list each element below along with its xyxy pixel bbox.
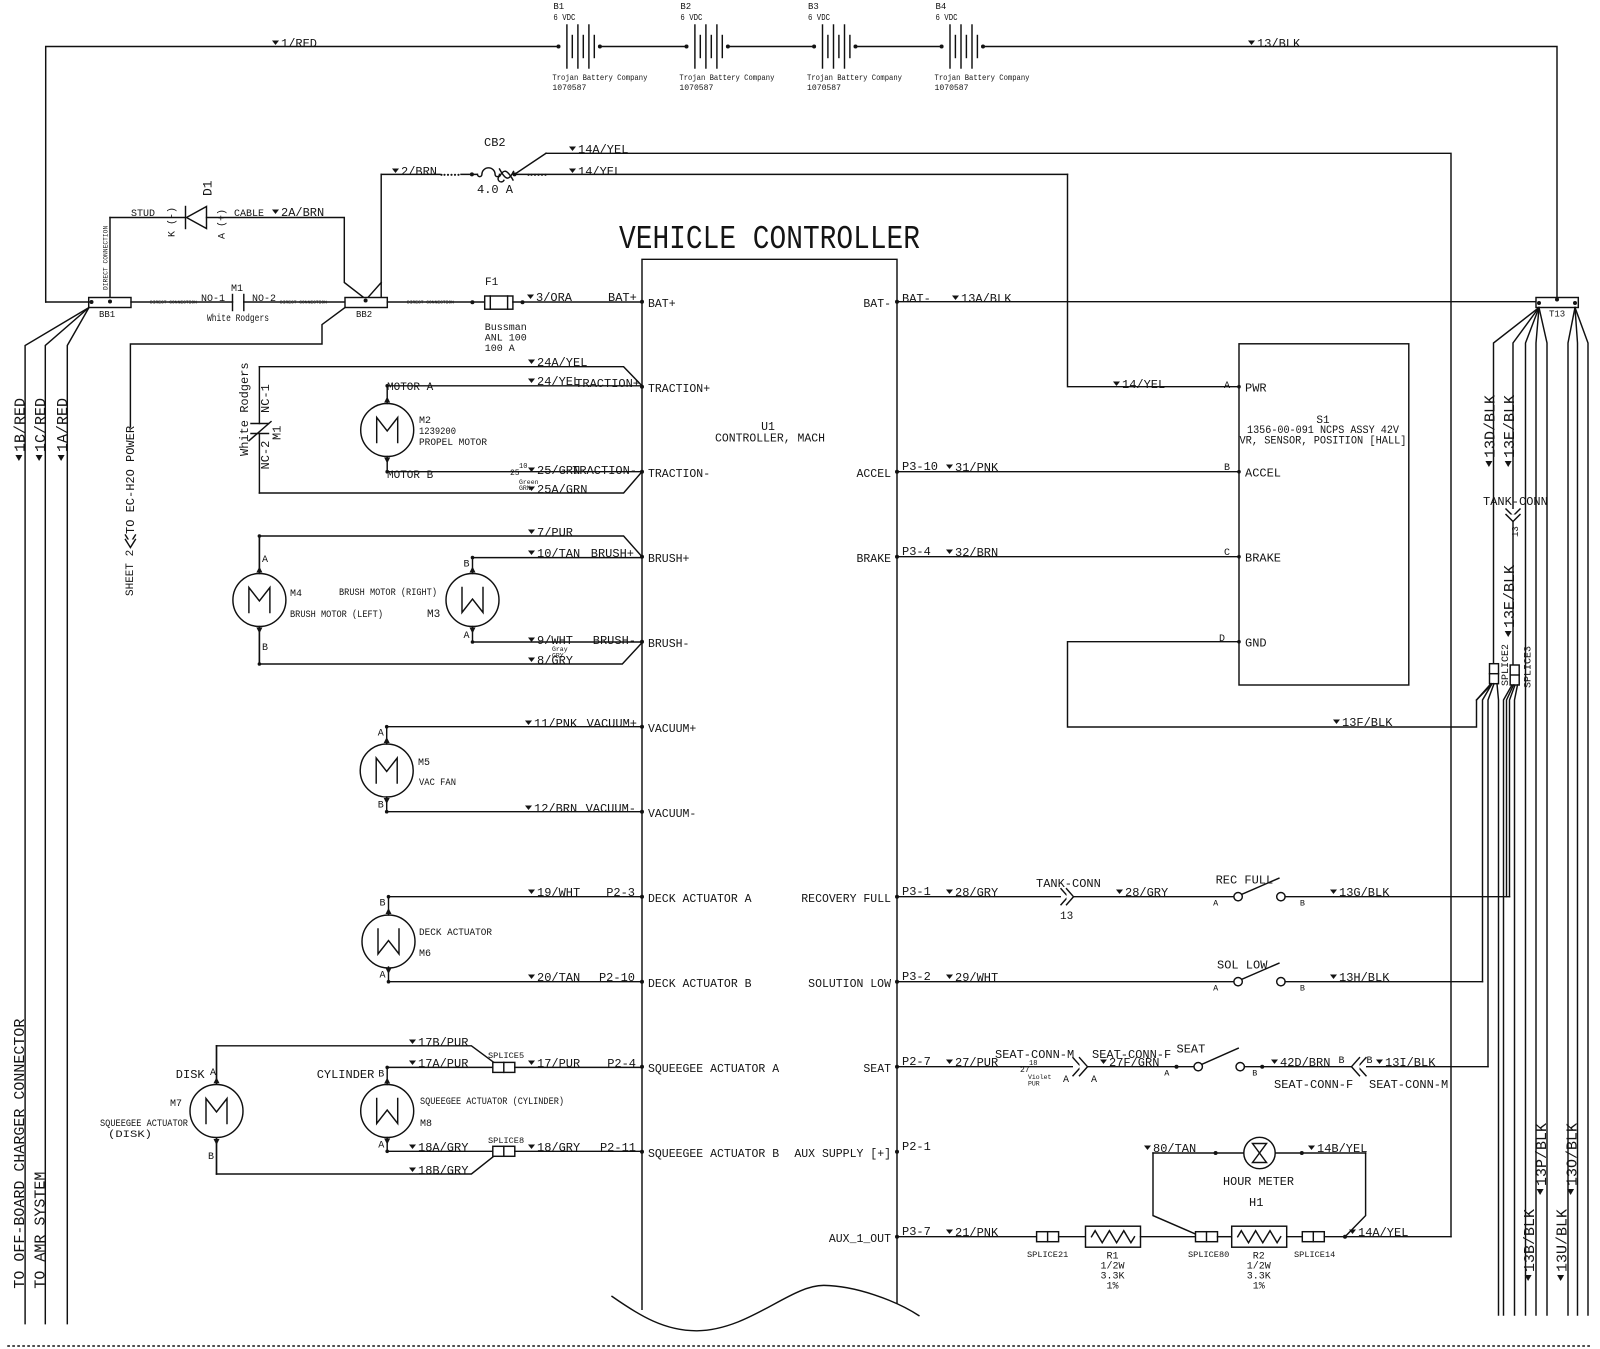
svg-text:32/BRN: 32/BRN [955, 546, 998, 560]
label 17B/PUR [409, 1040, 416, 1045]
label 80/TAN [1144, 1146, 1151, 1151]
pin DECK ACTUATOR A (U1 left) [640, 895, 644, 899]
wire 14A/YEL [546, 153, 1451, 1236]
svg-text:B: B [380, 899, 386, 910]
svg-text:VACUUM-: VACUUM- [586, 802, 636, 816]
svg-text:24A/YEL: 24A/YEL [537, 356, 587, 370]
svg-text:GRN: GRN [519, 485, 531, 492]
wire 2/BRN diag [367, 283, 382, 300]
hour meter H1 [1244, 1137, 1275, 1168]
svg-text:BAT+: BAT+ [608, 291, 637, 305]
battery B2 [694, 25, 696, 68]
motor M3 (brush right) [446, 574, 499, 627]
pin BAT- (U1 right) [895, 300, 899, 304]
terminal block BB1 [89, 298, 131, 308]
svg-text:7/PUR: 7/PUR [537, 526, 573, 540]
pin BRAKE (S1) [1237, 555, 1241, 559]
squeegee left vertical bottom [216, 1138, 218, 1174]
junction before F1 [470, 300, 474, 304]
svg-text:B: B [1224, 463, 1230, 474]
svg-text:TO AMR SYSTEM: TO AMR SYSTEM [32, 1172, 49, 1289]
svg-text:White Rodgers: White Rodgers [238, 362, 252, 456]
motor M4 (brush left) [233, 574, 286, 627]
pin ACCEL (S1) [1237, 470, 1241, 474]
svg-text:28/GRY: 28/GRY [1125, 886, 1168, 900]
svg-text:PWR: PWR [1245, 382, 1267, 396]
svg-text:DECK ACTUATOR: DECK ACTUATOR [419, 928, 492, 939]
svg-text:SHEET 2: SHEET 2 [125, 550, 137, 596]
wire 14/YEL to S1 PWR [1068, 174, 1240, 386]
svg-text:31/PNK: 31/PNK [955, 461, 999, 475]
svg-text:SEAT: SEAT [863, 1063, 891, 1076]
pin VACUUM+ (U1 left) [640, 725, 644, 729]
label 19/WHT [528, 890, 535, 895]
svg-text:F1: F1 [485, 277, 499, 289]
pin AUX SUPPLY [+] (U1 right) [895, 1150, 899, 1154]
svg-text:M6: M6 [419, 949, 431, 960]
svg-text:42D/BRN: 42D/BRN [1280, 1056, 1330, 1070]
wire 13G/BLK vertical b [1510, 685, 1516, 897]
splice SPLICE2 box [1490, 664, 1499, 684]
connector TANK-CONN row chevron [1061, 889, 1068, 905]
label 7/PUR [528, 530, 535, 535]
wire 24A/YEL [259, 367, 642, 386]
svg-text:TANK-CONN: TANK-CONN [1483, 495, 1548, 509]
svg-text:18B/GRY: 18B/GRY [418, 1164, 468, 1178]
contact M1 (NO) [232, 295, 234, 311]
label 20/TAN [528, 975, 535, 980]
wire 13G/BLK [1285, 896, 1509, 898]
svg-text:M3: M3 [427, 609, 440, 621]
pin TRACTION+ (U1 left) [640, 385, 644, 389]
label 42D/BRN [1271, 1060, 1278, 1065]
svg-text:STUD: STUD [131, 209, 155, 220]
wire 1B/RED [25, 308, 89, 1324]
label 3/ORA [527, 295, 534, 300]
svg-text:3/ORA: 3/ORA [536, 291, 573, 305]
svg-text:SPLICE8: SPLICE8 [488, 1136, 524, 1146]
svg-text:VACUUM-: VACUUM- [648, 808, 696, 821]
svg-text:SPLICE14: SPLICE14 [1294, 1250, 1335, 1260]
svg-text:D: D [1219, 634, 1225, 645]
svg-text:1/RED: 1/RED [281, 37, 317, 51]
label 13A/BLK [952, 296, 959, 301]
wire 18B/GRY [217, 1157, 493, 1174]
svg-text:CABLE: CABLE [234, 209, 264, 220]
svg-text:13/BLK: 13/BLK [1257, 37, 1301, 51]
pin SQUEEGEE ACTUATOR B (U1 left) [640, 1150, 644, 1154]
svg-text:P3-1: P3-1 [902, 885, 931, 899]
wire 2/BRN horizontal [381, 173, 440, 175]
svg-text:80/TAN: 80/TAN [1153, 1142, 1196, 1156]
svg-text:B: B [262, 643, 268, 654]
label 17A/PUR [409, 1061, 416, 1066]
crimp marks left of CB2 [440, 174, 442, 176]
svg-text:T13: T13 [1549, 310, 1565, 320]
label 14A/YEL [569, 147, 576, 152]
label 14/YEL [569, 169, 576, 174]
svg-text:SPLICE5: SPLICE5 [488, 1051, 524, 1061]
svg-text:BRUSH-: BRUSH- [648, 638, 689, 651]
svg-text:24/YEL: 24/YEL [537, 375, 580, 389]
svg-text:18A/GRY: 18A/GRY [418, 1141, 468, 1155]
svg-text:SPLICE80: SPLICE80 [1188, 1250, 1229, 1260]
motor M7 (squeegee disk) [190, 1085, 243, 1138]
wire 21/PNK [897, 1236, 1036, 1238]
motor M5 lead B [386, 797, 388, 812]
label 12/BRN [525, 806, 532, 811]
label 24/YEL [528, 379, 535, 384]
label 18B/GRY [409, 1168, 416, 1173]
resistor R1 [1086, 1226, 1141, 1247]
svg-text:20/TAN: 20/TAN [537, 971, 580, 985]
svg-text:NO-1: NO-1 [201, 294, 225, 305]
svg-text:17A/PUR: 17A/PUR [418, 1057, 468, 1071]
svg-text:TRACTION-: TRACTION- [572, 464, 637, 478]
svg-text:TRACTION+: TRACTION+ [575, 377, 640, 391]
svg-text:P2-10: P2-10 [599, 971, 635, 985]
svg-text:C: C [1224, 548, 1230, 559]
wire 13E/BLK [1513, 308, 1539, 666]
connector SEAT-CONN chevron [1073, 1058, 1081, 1076]
svg-text:2/BRN: 2/BRN [401, 165, 437, 179]
svg-text:BAT-: BAT- [863, 298, 891, 311]
pin GND (S1) [1237, 640, 1241, 644]
svg-text:SQUEEGEE ACTUATOR B: SQUEEGEE ACTUATOR B [648, 1148, 779, 1161]
svg-text:ACCEL: ACCEL [1245, 467, 1281, 481]
label 2A/BRN [272, 210, 279, 215]
splice SPLICE80 [1196, 1232, 1218, 1242]
motor M4 lead B [258, 627, 260, 665]
svg-text:14/YEL: 14/YEL [578, 165, 621, 179]
motor M4 lead A [258, 536, 260, 574]
label 31/PNK [946, 465, 953, 470]
svg-text:13: 13 [1060, 911, 1073, 923]
pin DECK ACTUATOR B (U1 left) [640, 980, 644, 984]
wire to CB2 [461, 173, 477, 175]
svg-text:REC FULL: REC FULL [1216, 874, 1274, 888]
wire T13 right fan 1 [1568, 308, 1575, 1316]
hour meter H1 loop [1153, 1153, 1196, 1234]
svg-text:P3-4: P3-4 [902, 545, 931, 559]
svg-text:VACUUM+: VACUUM+ [587, 717, 637, 731]
svg-text:Trojan Battery Company: Trojan Battery Company [807, 73, 902, 83]
svg-text:B1: B1 [553, 2, 564, 12]
contact M1 (NC) [251, 423, 269, 425]
wire 2/BRN [380, 174, 382, 299]
pin BRUSH- (U1 left) [640, 640, 644, 644]
terminal block BB2 [345, 298, 387, 308]
label 13/BLK [1248, 41, 1255, 46]
wire 25/GRN (MOTOR B) [387, 471, 642, 473]
terminal block T13 [1536, 298, 1578, 308]
label 2/BRN [392, 169, 399, 174]
svg-text:6 VDC: 6 VDC [553, 13, 575, 23]
svg-text:14/YEL: 14/YEL [1122, 378, 1165, 392]
svg-text:13B/BLK: 13B/BLK [1522, 1209, 1539, 1272]
pin SEAT (U1 right) [895, 1065, 899, 1069]
wire SPLICE21-R1 [1059, 1236, 1086, 1238]
wire 17/PUR [515, 1066, 642, 1068]
svg-text:SEAT: SEAT [1177, 1043, 1206, 1057]
label 25/GRN [528, 468, 535, 473]
junction before SEAT switch [1175, 1065, 1179, 1069]
sensor S1 box [1239, 344, 1409, 685]
svg-text:A: A [262, 555, 268, 566]
wire 14/YEL from CB2 [515, 173, 1068, 175]
wire 29/WHT [897, 981, 1234, 983]
svg-text:B: B [208, 1152, 214, 1163]
label 14A/YEL bottom [1349, 1230, 1356, 1235]
label 27/PUR [946, 1060, 953, 1065]
svg-text:BB1: BB1 [99, 310, 115, 320]
wire 17B/PUR [217, 1046, 494, 1063]
wire T13 fan 3 [1526, 308, 1540, 1316]
svg-text:A: A [1213, 899, 1219, 909]
svg-text:P2-7: P2-7 [902, 1055, 931, 1069]
svg-text:D1: D1 [201, 180, 216, 196]
svg-text:11/PNK: 11/PNK [534, 717, 578, 731]
wire B1-B2 [600, 46, 686, 48]
svg-text:1C/RED: 1C/RED [33, 398, 50, 452]
svg-text:A: A [380, 971, 386, 982]
label 28/GRY b [1116, 890, 1123, 895]
svg-text:10: 10 [519, 463, 527, 471]
crimp marks right of CB2 [527, 174, 529, 176]
splice SPLICE5 [493, 1062, 515, 1072]
motor M2 lead A [386, 386, 388, 404]
svg-text:A: A [464, 631, 470, 642]
svg-text:B: B [464, 560, 470, 571]
svg-text:PROPEL MOTOR: PROPEL MOTOR [419, 438, 487, 449]
wire SPLICE3 down 1 [1504, 685, 1513, 1315]
wire 19/WHT [389, 896, 643, 898]
svg-text:6 VDC: 6 VDC [936, 13, 958, 23]
svg-text:SPLICE3: SPLICE3 [1524, 646, 1535, 688]
switch SOL LOW [1234, 978, 1242, 986]
svg-text:P2-1: P2-1 [902, 1140, 931, 1154]
svg-text:13: 13 [1511, 526, 1521, 537]
pin SQUEEGEE ACTUATOR A (U1 left) [640, 1065, 644, 1069]
svg-text:14A/YEL: 14A/YEL [578, 143, 628, 157]
junction after F1 [521, 300, 525, 304]
motor M5 (vac fan) [360, 744, 413, 797]
svg-text:DECK ACTUATOR B: DECK ACTUATOR B [648, 978, 752, 991]
svg-text:A: A [1091, 1075, 1097, 1086]
svg-text:SPLICE21: SPLICE21 [1027, 1250, 1068, 1260]
svg-text:18: 18 [1029, 1060, 1037, 1068]
svg-text:17B/PUR: 17B/PUR [418, 1036, 468, 1050]
svg-text:13P/BLK: 13P/BLK [1534, 1123, 1551, 1186]
svg-text:BRUSH MOTOR (RIGHT): BRUSH MOTOR (RIGHT) [339, 587, 437, 599]
svg-text:8/GRY: 8/GRY [537, 654, 573, 668]
motor M8 lead A [386, 1138, 388, 1152]
wire 18A/GRY [387, 1150, 494, 1152]
svg-text:ANL 100: ANL 100 [485, 334, 527, 345]
label 32/BRN [946, 550, 953, 555]
wire T13 right fan 2 [1575, 308, 1578, 1316]
wire 1/RED top [46, 47, 559, 303]
svg-text:BRUSH-: BRUSH- [593, 634, 636, 648]
wire SPLICE2 to 13F [1477, 684, 1492, 700]
wire T13 fan 5 [1539, 308, 1547, 1316]
svg-text:SQUEEGEE ACTUATOR A: SQUEEGEE ACTUATOR A [648, 1063, 779, 1076]
svg-text:29/WHT: 29/WHT [955, 971, 998, 985]
svg-text:1070587: 1070587 [552, 84, 586, 93]
svg-text:1A/RED: 1A/RED [55, 398, 72, 452]
label 13I/BLK [1376, 1060, 1383, 1065]
svg-text:P2-3: P2-3 [606, 886, 635, 900]
svg-text:NO-2: NO-2 [252, 294, 276, 305]
circuit breaker CB2 [478, 168, 500, 177]
pin BRUSH+ (U1 left) [640, 555, 644, 559]
switch SEAT [1194, 1063, 1202, 1071]
motor M5 lead A [386, 727, 388, 744]
motor M7 lead arrows [216, 1046, 218, 1084]
label 13G/BLK [1330, 890, 1337, 895]
svg-text:B: B [1300, 984, 1305, 994]
svg-text:BAT+: BAT+ [648, 298, 676, 311]
wire B3-B4 [855, 46, 941, 48]
svg-text:TO OFF-BOARD CHARGER CONNECTOR: TO OFF-BOARD CHARGER CONNECTOR [12, 1019, 29, 1289]
label 11/PNK [525, 721, 532, 726]
wire 12/BRN [387, 811, 642, 813]
svg-text:P3-7: P3-7 [902, 1225, 931, 1239]
wire 13/BLK top [982, 47, 1557, 298]
svg-text:M1: M1 [231, 284, 243, 295]
svg-text:6 VDC: 6 VDC [680, 13, 702, 23]
svg-text:1B/RED: 1B/RED [13, 398, 30, 452]
svg-text:B: B [1252, 1069, 1257, 1079]
label 14B/YEL [1308, 1146, 1315, 1151]
svg-text:TANK-CONN: TANK-CONN [1036, 877, 1101, 891]
svg-text:B: B [378, 801, 384, 812]
junctions T13 [1537, 301, 1541, 305]
wire 10/TAN [473, 557, 643, 559]
wire 7/PUR [259, 536, 642, 557]
svg-text:A: A [210, 1068, 216, 1079]
svg-text:17/PUR: 17/PUR [537, 1057, 580, 1071]
svg-text:13D/BLK: 13D/BLK [1483, 395, 1500, 458]
label 1/RED [272, 41, 279, 46]
wire F1 to BAT+ [513, 301, 642, 303]
svg-text:DECK ACTUATOR A: DECK ACTUATOR A [648, 893, 752, 906]
svg-text:AUX_1_OUT: AUX_1_OUT [829, 1233, 891, 1246]
connector TANK-CONN chevron [1506, 509, 1520, 516]
wire 9/WHT [473, 641, 643, 643]
pin BAT+ (U1 left) [640, 300, 644, 304]
svg-text:A: A [1224, 381, 1230, 392]
wire B2-B3 [727, 46, 813, 48]
fuse F1 [485, 296, 513, 309]
svg-text:13U/BLK: 13U/BLK [1554, 1209, 1571, 1272]
svg-text:P3-2: P3-2 [902, 970, 931, 984]
svg-text:1239200: 1239200 [419, 427, 456, 438]
wire 13H/BLK vertical [1483, 684, 1493, 982]
wire M1 to BB2 [244, 301, 345, 303]
svg-text:DIRECT CONNECTION: DIRECT CONNECTION [407, 300, 454, 306]
wire 13H/BLK [1285, 981, 1482, 983]
svg-text:SOLUTION LOW: SOLUTION LOW [808, 978, 891, 991]
svg-text:13O/BLK: 13O/BLK [1564, 1123, 1581, 1186]
svg-text:12/BRN: 12/BRN [534, 802, 577, 816]
svg-text:BAT-: BAT- [902, 292, 931, 306]
svg-text:BB2: BB2 [356, 310, 372, 320]
svg-text:White Rodgers: White Rodgers [207, 313, 269, 325]
hour meter junctions [1214, 1151, 1218, 1155]
svg-text:21/PNK: 21/PNK [955, 1226, 999, 1240]
label 21/PNK [946, 1230, 953, 1235]
motor M2 (propel) [361, 404, 414, 457]
svg-text:B: B [1300, 899, 1305, 909]
wire 42D/BRN [1244, 1066, 1488, 1068]
svg-text:13I/BLK: 13I/BLK [1385, 1056, 1436, 1070]
junction after SEAT switch [1260, 1065, 1264, 1069]
hour meter wire left [1153, 1152, 1244, 1154]
svg-text:A (+): A (+) [217, 209, 229, 239]
svg-text:P2-4: P2-4 [607, 1057, 636, 1071]
wire 8/GRY [259, 643, 642, 664]
svg-text:CONTROLLER, MACH: CONTROLLER, MACH [715, 433, 825, 446]
svg-text:BRUSH+: BRUSH+ [591, 547, 634, 561]
svg-text:B2: B2 [680, 2, 691, 12]
label 9/WHT [528, 638, 535, 643]
svg-text:A: A [1164, 1069, 1170, 1079]
motor M8 lead B [386, 1067, 388, 1084]
svg-text:M2: M2 [419, 416, 431, 427]
svg-text:VR, SENSOR, POSITION [HALL]: VR, SENSOR, POSITION [HALL] [1240, 436, 1407, 448]
svg-text:H1: H1 [1249, 1196, 1263, 1210]
wire T13 fan 4 [1536, 308, 1539, 1316]
controller U1 torn bottom edge [612, 1285, 919, 1330]
svg-text:Trojan Battery Company: Trojan Battery Company [935, 73, 1030, 83]
wire 18/GRY [515, 1150, 642, 1152]
svg-text:DIRECT CONNECTION: DIRECT CONNECTION [103, 226, 110, 290]
svg-text:PUR: PUR [1028, 1081, 1040, 1088]
switch REC FULL [1234, 893, 1242, 901]
svg-text:BRAKE: BRAKE [1245, 552, 1281, 566]
label 24A/YEL [528, 360, 535, 365]
wire brush left vertical [258, 536, 260, 664]
svg-text:A: A [1063, 1075, 1069, 1086]
svg-text:1%: 1% [1253, 1282, 1265, 1293]
wire R1-SPLICE80 [1141, 1236, 1196, 1238]
pin SOLUTION LOW (U1 right) [895, 980, 899, 984]
svg-text:TO EC-H2O POWER: TO EC-H2O POWER [124, 426, 138, 534]
svg-text:B: B [1367, 1056, 1373, 1067]
wire 28/GRY a [897, 896, 1234, 898]
wire BB1 to M1 [131, 301, 233, 303]
wire SPLICE3 down 2 [1515, 685, 1518, 1315]
svg-text:AUX SUPPLY [+]: AUX SUPPLY [+] [794, 1148, 891, 1161]
svg-text:13G/BLK: 13G/BLK [1339, 886, 1390, 900]
wire 27/PUR [897, 1066, 1194, 1068]
svg-text:13E/BLK: 13E/BLK [1502, 565, 1519, 628]
junction after CB2 [513, 172, 517, 176]
junction hour meter drop [1343, 1235, 1347, 1239]
motor M8 (squeegee cylinder) [361, 1085, 414, 1138]
svg-text:HOUR METER: HOUR METER [1223, 1176, 1294, 1189]
wire left-vertical to BB1 [46, 301, 89, 303]
svg-text:SQUEEGEE ACTUATOR: SQUEEGEE ACTUATOR [100, 1119, 188, 1130]
svg-text:19/WHT: 19/WHT [537, 886, 580, 900]
svg-text:14B/YEL: 14B/YEL [1317, 1142, 1367, 1156]
wire 1A/RED [67, 308, 89, 1324]
squeegee left vertical top [216, 1046, 218, 1084]
svg-text:GND: GND [1245, 637, 1267, 651]
splice SPLICE14 [1302, 1232, 1324, 1242]
svg-text:SEAT-CONN-M: SEAT-CONN-M [1369, 1078, 1448, 1092]
